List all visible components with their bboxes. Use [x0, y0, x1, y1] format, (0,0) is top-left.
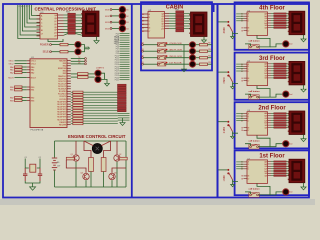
resistor R1	[60, 43, 68, 45]
resistor F12	[274, 18, 286, 19]
wire U5 in 0	[236, 63, 243, 65]
wire bus7	[32, 5, 40, 16]
U5 lower pin 1	[244, 80, 248, 82]
transistor Q4	[109, 173, 115, 179]
U1 left pin RA2	[27, 72, 30, 74]
wire RS6 right	[83, 104, 118, 106]
net stub 8	[120, 48, 130, 50]
net stub 17	[120, 68, 130, 70]
wire RS9 right	[83, 112, 118, 114]
U4 lower pin 1	[244, 30, 248, 32]
U6 lower pin 0	[244, 127, 248, 129]
wire U3 bottom loop	[48, 39, 63, 42]
U1 left pin RA0	[27, 66, 30, 68]
crystal X1	[30, 164, 36, 172]
wire respack row 6	[64, 31, 68, 33]
LED L2	[190, 48, 196, 54]
wire seg 5	[271, 24, 274, 26]
resistor R4	[78, 76, 89, 79]
U1 left pin RB1	[27, 89, 30, 91]
wire resistor to border 1	[208, 50, 212, 52]
resistor RS12	[73, 120, 83, 122]
svg-text:3RD FLOOR: 3RD FLOOR	[169, 50, 182, 52]
outer schematic frame	[3, 4, 309, 198]
U5 lower pin 0	[244, 77, 248, 79]
wire RS4 right	[83, 99, 118, 101]
U1 right pin 2	[67, 62, 71, 64]
svg-text:R10: R10	[208, 49, 211, 51]
svg-text:4th Floor: 4th Floor	[259, 6, 285, 12]
wire seg b 3	[286, 168, 289, 170]
wire MO4 to LED	[112, 28, 119, 30]
transistor Q1	[73, 155, 79, 161]
wire R1 to D5	[68, 44, 75, 46]
svg-text:POWER: POWER	[40, 45, 49, 47]
wire seg 2	[271, 117, 274, 119]
wire respack to display row 6	[75, 31, 82, 33]
svg-text:D5: D5	[142, 31, 144, 33]
svg-text:1st Floor: 1st Floor	[259, 154, 285, 160]
wire RA2	[22, 72, 27, 74]
wire seg b 6	[286, 175, 289, 177]
U4 right pin 4	[268, 22, 272, 24]
svg-text:D2: D2	[126, 16, 128, 18]
net stub b2	[118, 117, 130, 119]
LED L4	[190, 61, 196, 67]
engine bottom rail	[55, 186, 127, 188]
svg-text:2 MOI: 2 MOI	[224, 127, 226, 134]
U1 left pin MCLR	[27, 76, 30, 78]
wire seg 6	[271, 175, 274, 177]
net stub 6	[120, 44, 130, 46]
wire LED to resistor 3	[196, 63, 200, 65]
wire U6 in 0	[236, 113, 243, 115]
wire row B2	[143, 57, 157, 59]
LED D7	[95, 70, 101, 76]
resistor F46	[274, 175, 286, 176]
net stub 18	[120, 70, 130, 72]
U2 left pin 1	[142, 16, 148, 18]
U1 left pin OSC2	[27, 63, 30, 65]
U7 lower pin 1	[244, 178, 248, 180]
U5 right pin 0	[268, 63, 272, 65]
resistor RS2	[73, 94, 83, 96]
wire respack row 0	[64, 14, 68, 16]
wire seg b 1	[286, 163, 289, 165]
wire cabin row 1	[169, 15, 176, 17]
wire seg 2	[271, 165, 274, 167]
U3 pin out 5 right stub	[58, 29, 64, 31]
U6 right pin 1	[268, 115, 272, 117]
wire respack to display row 5	[75, 29, 82, 31]
wire respack row 1	[64, 17, 68, 19]
svg-text:SELE: SELE	[43, 52, 49, 54]
U5 left pin 0	[244, 63, 248, 65]
svg-text:PC21: PC21	[115, 80, 119, 82]
U1 right pin 21	[67, 111, 71, 113]
svg-text:RB1: RB1	[10, 90, 14, 92]
svg-text:RE1/WR: RE1/WR	[59, 124, 67, 126]
capacitor C1	[23, 168, 27, 181]
svg-text:U6: U6	[248, 110, 250, 112]
wire row B4	[143, 44, 157, 46]
net stub 19	[120, 72, 130, 74]
resistor at RA2	[15, 72, 23, 74]
wire lights to ground	[101, 73, 104, 79]
call button	[249, 193, 259, 198]
resistor F32	[274, 117, 286, 118]
U1 right pin 3	[67, 65, 71, 67]
U3 pin 2 left stub	[37, 18, 41, 20]
svg-text:D3: D3	[142, 24, 144, 26]
U1 right pin 16	[67, 98, 71, 100]
U3 pin 4 left stub	[37, 25, 41, 27]
U1 left pin RB2	[27, 97, 30, 99]
U2 left pin 0	[142, 13, 148, 15]
wire U4 in 3	[236, 20, 243, 22]
U3 pin out 7 right stub	[58, 34, 64, 36]
U5 right pin 5	[268, 75, 272, 77]
wire RX	[71, 60, 85, 62]
U1 right pin 22	[67, 113, 71, 115]
svg-text:RB0: RB0	[10, 87, 14, 89]
U6 left pin 1	[244, 115, 248, 117]
U2 right pin 5	[165, 25, 170, 27]
cabin collector wire	[183, 45, 185, 68]
svg-text:RA1: RA1	[10, 69, 14, 72]
bottom grey band	[0, 199, 315, 205]
ground floor display	[303, 85, 305, 87]
resistor F31	[274, 115, 286, 116]
net stub 1	[120, 33, 130, 35]
svg-text:D4: D4	[142, 27, 144, 29]
wire RS2 left	[71, 94, 73, 96]
resistor RC4	[200, 63, 208, 65]
LED D6	[75, 49, 81, 55]
wire after button B4	[166, 44, 189, 46]
wire seg b 1	[286, 15, 289, 17]
net stub 9	[120, 50, 130, 52]
svg-text:OSC1: OSC1	[31, 61, 36, 63]
ground floor display	[303, 135, 305, 137]
state dot B1	[166, 62, 168, 64]
net stub 3	[120, 37, 130, 39]
svg-text:6 5 4 3 2 1 7: 6 5 4 3 2 1 7	[18, 6, 30, 8]
wire seg 4	[271, 22, 274, 24]
U1 right pin 26	[67, 124, 71, 126]
wire LED to resistor 1	[196, 50, 200, 52]
resistor F30	[274, 113, 286, 114]
svg-text:RB3: RB3	[10, 100, 14, 102]
wire seg 1	[271, 163, 274, 165]
U1 right pin 5	[67, 70, 71, 72]
svg-text:LIGHTS: LIGHTS	[96, 67, 104, 69]
wire U6 in 3	[236, 120, 243, 122]
net stub b3	[118, 119, 130, 121]
wire seg b 0	[286, 13, 289, 15]
svg-text:2nd Floor: 2nd Floor	[258, 105, 286, 111]
U2 left pin 5	[142, 30, 148, 32]
svg-text:led: led	[290, 94, 292, 96]
wire RS6 left	[71, 104, 73, 106]
wire seg b 2	[286, 165, 289, 167]
wire seg 1	[271, 115, 274, 117]
U6 left pin 0	[244, 113, 248, 115]
wire seg b 2	[286, 117, 289, 119]
svg-text:RA2: RA2	[31, 72, 35, 75]
wire U4 in 0	[236, 13, 243, 15]
U7 lower pin 0	[244, 175, 248, 177]
U1 left pin RB0	[27, 86, 30, 88]
resistor F36	[274, 127, 286, 128]
wire bus to switch	[218, 169, 227, 171]
U4 right pin 3	[268, 20, 272, 22]
resistor F23	[274, 70, 286, 71]
wire seg 2	[271, 68, 274, 70]
terminal TX	[85, 58, 87, 60]
wire bus to switch	[218, 21, 227, 23]
resistor F33	[274, 120, 286, 121]
terminal MO1	[110, 9, 112, 11]
svg-text:D3: D3	[126, 22, 128, 24]
U7 right pin 6	[268, 175, 272, 177]
call button	[249, 45, 259, 50]
svg-text:call button: call button	[249, 40, 261, 43]
wire seg 1	[271, 15, 274, 17]
wire U6 in 2	[236, 117, 243, 119]
U2 right pin 6	[165, 28, 170, 30]
resistor F16	[274, 27, 286, 28]
ground crystal	[32, 185, 34, 187]
wire cabin row 6 b	[184, 28, 191, 30]
LED floor 3	[283, 91, 289, 97]
net stub 16	[120, 66, 130, 68]
button B2	[158, 56, 166, 60]
button B4	[158, 43, 166, 47]
U5 right pin 2	[268, 68, 272, 70]
svg-text:OSC2: OSC2	[31, 64, 36, 66]
resistor RS5	[73, 102, 83, 104]
wire SELE	[51, 51, 60, 53]
net stub 5	[120, 41, 130, 43]
wire seg b 1	[286, 65, 289, 67]
U1 right pin 4	[67, 67, 71, 69]
U1 right pin 17	[67, 101, 71, 103]
U1 right pin 25	[67, 121, 71, 123]
terminal CK	[85, 63, 87, 65]
U2 left pin 2	[142, 20, 148, 22]
terminal POWER	[50, 44, 52, 46]
net stub 12	[120, 57, 130, 59]
U1 right pin 6	[67, 72, 71, 74]
resistor at RB1	[15, 89, 23, 91]
wire seg b 5	[286, 75, 289, 77]
7seg display floor 3	[289, 61, 305, 85]
wire to LED	[270, 94, 283, 97]
engine right rail	[125, 141, 127, 187]
U7 right pin 4	[268, 170, 272, 172]
bus stub at top	[213, 4, 215, 12]
svg-text:D1: D1	[126, 10, 128, 12]
call button	[249, 144, 259, 149]
7-segment display CPU	[83, 11, 100, 37]
terminal MO3	[110, 21, 112, 23]
U6 left pin 2	[244, 117, 248, 119]
U4 left pin 3	[244, 20, 248, 22]
resistor F45	[274, 173, 286, 174]
resistor R8	[120, 157, 128, 160]
wire RS2 right	[83, 94, 118, 96]
svg-text:call button: call button	[249, 140, 261, 143]
7seg display floor 1	[289, 159, 305, 183]
floor box 2nd Floor	[235, 102, 309, 148]
wire RS10 left	[71, 115, 73, 117]
wire button right	[257, 183, 270, 195]
U1 right pin 15	[67, 95, 71, 97]
U1 right pin 14	[67, 93, 71, 95]
wire seg b 6	[286, 27, 289, 29]
U2 left pin 4	[142, 27, 148, 29]
wire seg b 2	[286, 17, 289, 19]
wire respack row 2	[64, 20, 68, 22]
wire seg 5	[271, 124, 274, 126]
net stub 22	[120, 79, 130, 81]
LED floor 4	[283, 41, 289, 47]
wire MO2 to LED	[112, 15, 119, 17]
net stub 21	[120, 77, 130, 79]
svg-text:3 MOI: 3 MOI	[224, 77, 226, 84]
U1 left pin RB3	[27, 99, 30, 101]
resistor at RA1	[15, 69, 23, 71]
wire seg 4	[271, 170, 274, 172]
LED floor 2	[283, 141, 289, 147]
engine top rail	[55, 140, 127, 142]
net stub 2	[120, 35, 130, 37]
wire seg b 3	[286, 20, 289, 22]
U2 right pin 4	[165, 23, 170, 25]
wire cabin row 5	[169, 25, 176, 27]
floor box 4th Floor	[235, 2, 309, 49]
svg-text:RB1: RB1	[31, 90, 35, 92]
state dot B2	[166, 55, 168, 57]
svg-text:RB2: RB2	[31, 98, 35, 100]
wire LEDs to ground	[81, 45, 86, 49]
U2 right pin 1	[165, 15, 170, 17]
ground switch	[232, 133, 234, 135]
wire seg b 0	[286, 112, 289, 114]
wire RS12 right	[83, 120, 118, 122]
wire seg 2	[271, 17, 274, 19]
CABIN box	[141, 2, 212, 70]
wire RS7 left	[71, 107, 73, 109]
wires to lights LEDs	[71, 73, 78, 75]
wire switch to box	[233, 32, 238, 34]
wire respack row 7	[64, 34, 68, 36]
wire RB3	[22, 99, 27, 101]
wire seg b 3	[286, 119, 289, 121]
U7 right pin 0	[268, 161, 272, 163]
wire RS11 right	[83, 117, 118, 119]
svg-text:D1: D1	[142, 17, 144, 19]
LED D3	[119, 19, 125, 25]
wire seg 3	[271, 20, 274, 22]
U1 right pin 10	[67, 83, 71, 85]
svg-text:R12: R12	[208, 62, 211, 64]
wire seg b 6	[286, 77, 289, 79]
resistor F22	[274, 68, 286, 69]
wire seg 4	[271, 122, 274, 124]
U2 right pin 3	[165, 20, 170, 22]
wire seg b 2	[286, 68, 289, 70]
U7 right pin 3	[268, 168, 272, 170]
resistor F14	[274, 22, 286, 23]
svg-text:1 MOI: 1 MOI	[224, 175, 226, 182]
resistor F43	[274, 168, 286, 169]
U4 right pin 2	[268, 17, 272, 19]
wire button left	[245, 44, 251, 46]
svg-text:RA2: RA2	[10, 72, 14, 75]
wire seg 0	[271, 13, 274, 15]
floor box 1st Floor	[235, 150, 309, 195]
wire after button B1	[166, 63, 189, 65]
U3 pin 6 left stub	[37, 32, 41, 34]
svg-text:RA0: RA0	[10, 66, 14, 69]
wire bus1	[18, 5, 40, 39]
wire seg b 4	[286, 72, 289, 74]
wire respack to display row 3	[75, 23, 82, 25]
resistor at RB3	[15, 99, 23, 101]
U3 pin out 4 right stub	[58, 26, 64, 28]
decoder U6	[247, 112, 268, 136]
svg-text:D2: D2	[142, 21, 144, 23]
U1 right pin 11	[67, 85, 71, 87]
U1 right pin 1	[67, 60, 71, 62]
LED L1	[190, 42, 196, 48]
resistor F40	[274, 161, 286, 162]
resistor F21	[274, 65, 286, 66]
U4 right pin 5	[268, 24, 272, 26]
wire RB1	[22, 89, 27, 91]
svg-text:PIC16F877A: PIC16F877A	[31, 129, 44, 132]
U3 pin out 0 right stub	[58, 14, 64, 16]
svg-text:4TH FLOOR: 4TH FLOOR	[169, 43, 182, 45]
LED D2	[119, 13, 125, 19]
connector red stack	[118, 84, 127, 86]
svg-text:2ND FLOOR: 2ND FLOOR	[169, 56, 182, 58]
wire seg 3	[271, 119, 274, 121]
wire cabin row 4 b	[184, 23, 191, 25]
U2 left pin 3	[142, 23, 148, 25]
wire MCLR	[15, 76, 27, 78]
U2 right pin 0	[165, 13, 170, 15]
net stub 14	[120, 61, 130, 63]
svg-text:RB2: RB2	[10, 98, 14, 100]
resistor F20	[274, 63, 286, 64]
svg-text:RA1: RA1	[31, 69, 35, 72]
resistor RC1	[200, 44, 208, 46]
U1 left pin OSC1	[27, 60, 30, 62]
svg-text:RA0: RA0	[31, 66, 35, 69]
wire cabin row 1 b	[184, 15, 191, 17]
cabin display ground	[203, 37, 205, 39]
wire bus4	[25, 5, 40, 27]
U7 right pin 1	[268, 163, 272, 165]
U3 pin out 2 right stub	[58, 20, 64, 22]
wire caps join	[25, 181, 40, 183]
wire seg b 3	[286, 70, 289, 72]
wire after button B3	[166, 50, 189, 52]
wire respack to display row 4	[75, 26, 82, 28]
